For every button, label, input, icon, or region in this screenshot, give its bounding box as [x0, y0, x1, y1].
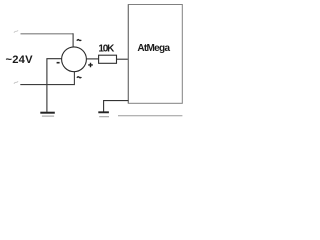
wire: resistor R1 to AtMega input pin	[117, 58, 129, 60]
wire: AtMega ground pin to ground symbol 2	[104, 101, 129, 112]
wire: bridge minus output to ground vertical	[47, 59, 62, 112]
svg-text:~24V: ~24V	[6, 54, 34, 66]
resistor R1 body (box style)	[99, 55, 117, 63]
svg-text:AtMega: AtMega	[137, 43, 170, 54]
faint mark before bottom AC line	[14, 81, 18, 84]
bridge B1 pin label: minus (-) output	[57, 62, 60, 64]
wire: bottom AC input horizontal line + rise to bridge AC pin	[20, 72, 74, 85]
ground symbol 2 (AtMega GND): main bar	[98, 111, 109, 113]
ground symbol 1: lower gray bar	[42, 115, 54, 117]
ground symbol 1 (bridge minus to GND): main bar	[40, 112, 55, 114]
IC U1: AtMega box left edge (darker)	[127, 5, 129, 104]
faint mark before top AC line	[14, 30, 18, 33]
ground symbol 2: lower gray bar	[99, 116, 109, 118]
gray line under AtMega box	[118, 115, 182, 117]
bridge B1 pin label: bottom tilde (~ AC pin)	[77, 76, 81, 79]
wire: top AC vertical drop to bridge AC pin	[72, 33, 74, 46]
IC U1: AtMega box	[128, 5, 182, 104]
bridge rectifier B1: circle body	[62, 47, 87, 72]
wire: bridge plus output to resistor R1	[87, 58, 99, 60]
bridge B1 pin label: plus (+) output	[88, 63, 93, 67]
svg-text:10K: 10K	[98, 44, 115, 55]
bridge B1 pin label: top tilde (~ AC pin)	[77, 40, 81, 41]
wire: top AC input horizontal line	[21, 33, 74, 35]
